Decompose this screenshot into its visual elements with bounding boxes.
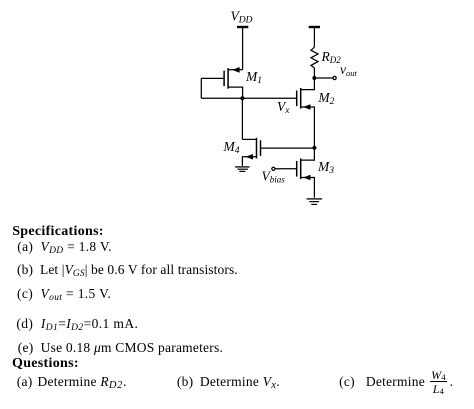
- svg-text:M4: M4: [223, 139, 240, 156]
- svg-text:vout: vout: [340, 62, 358, 78]
- svg-text:M3: M3: [317, 159, 334, 176]
- svg-text:M2: M2: [317, 90, 334, 107]
- svg-text:M1: M1: [245, 69, 262, 86]
- svg-text:VDD: VDD: [231, 9, 253, 26]
- svg-text:Vx: Vx: [277, 99, 290, 116]
- svg-text:RD2: RD2: [321, 49, 342, 65]
